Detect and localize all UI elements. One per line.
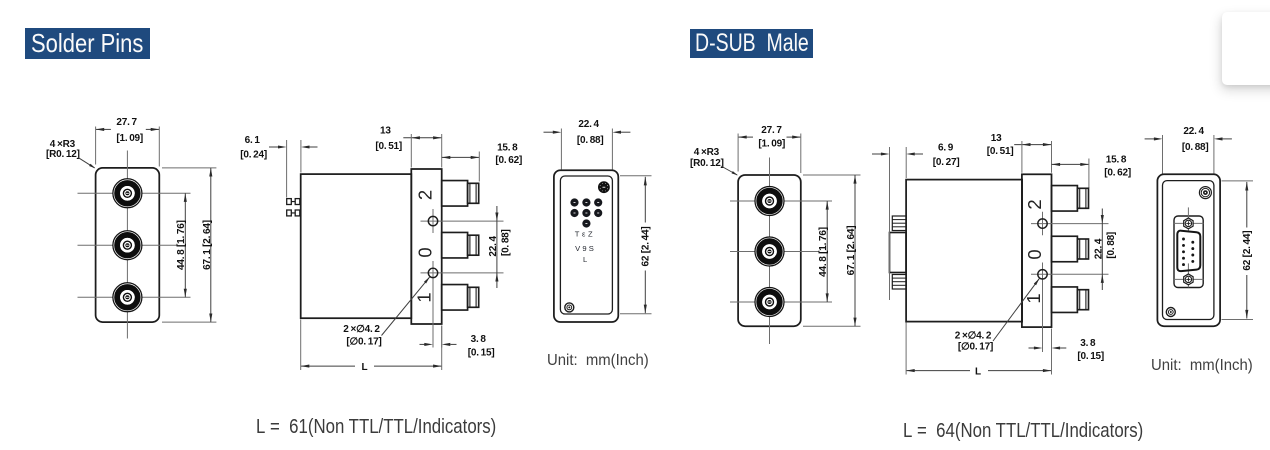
- D-SUB pins: [1182, 238, 1194, 266]
- centerline through BNC J1: [78, 192, 191, 194]
- extension line connector tip: [478, 152, 480, 182]
- svg-text:44. 8 [1. 76]: 44. 8 [1. 76]: [818, 227, 829, 277]
- front view vertical centerline: [126, 151, 128, 339]
- dimension 67.1 line right: [854, 175, 856, 326]
- panel dim 22.4 arrows right: [1145, 138, 1155, 140]
- front view body (D-SUB): [738, 175, 801, 326]
- dimension 44.8 line: [184, 193, 186, 297]
- svg-text:1: 1: [1023, 293, 1044, 303]
- mounting hole 4: [1038, 270, 1047, 279]
- panel extension line left: [560, 129, 562, 170]
- BNC connector J1 front: [113, 179, 142, 208]
- svg-text:2 ×∅4. 2: 2 ×∅4. 2: [955, 330, 992, 341]
- dimension 27.7 line left: [96, 128, 111, 130]
- svg-text:[0. 27]: [0. 27]: [933, 157, 960, 168]
- BNC connector J6 side: [1052, 287, 1089, 313]
- svg-text:L: L: [583, 255, 587, 264]
- extension line right: [158, 127, 160, 167]
- svg-text:22. 4: 22. 4: [1183, 126, 1204, 137]
- front view vertical centerline right: [769, 158, 771, 345]
- panel extension line right: [611, 129, 613, 170]
- dimension 3.8 arrows right: [1029, 347, 1035, 349]
- panel screw top right (D-SUB): [1199, 187, 1211, 199]
- extension lines 27.7 right: [737, 134, 739, 172]
- mounting hole 3 centerlines: [1031, 223, 1109, 225]
- BNC connector J5 side: [1052, 236, 1089, 262]
- caption L=64: [903, 419, 1196, 443]
- solder pin 1: [287, 199, 300, 205]
- D-SUB D-shape: [1177, 231, 1200, 271]
- svg-text:[0. 88]: [0. 88]: [1106, 232, 1117, 259]
- D-SUB jackscrew upper side: [892, 216, 906, 231]
- centerline through BNC J3: [78, 296, 191, 298]
- svg-text:2 ×∅4. 2: 2 ×∅4. 2: [343, 324, 380, 335]
- extension line bottom right: [162, 321, 216, 323]
- svg-text:22. 4: 22. 4: [488, 236, 499, 257]
- svg-text:[R0. 12]: [R0. 12]: [690, 158, 724, 169]
- svg-text:[0. 15]: [0. 15]: [1077, 351, 1104, 362]
- leader line 4xR3: [78, 157, 95, 168]
- centerline through BNC J4: [730, 200, 832, 202]
- BNC connector J6 front: [755, 288, 784, 317]
- extension line plate bottom right: [441, 326, 443, 371]
- panel extension line top right grp: [1222, 180, 1254, 182]
- dimension 3.8 arrows: [420, 343, 425, 345]
- svg-text:[0. 15]: [0. 15]: [468, 347, 495, 358]
- dimension 22.4 side line: [496, 206, 498, 288]
- dimension L line left: [301, 365, 355, 367]
- svg-text:22. 4: 22. 4: [1093, 238, 1104, 259]
- dimension L line right: [374, 365, 442, 367]
- centerline through BNC J6: [730, 301, 832, 303]
- svg-text:67. 1 [2. 64]: 67. 1 [2. 64]: [846, 226, 857, 276]
- svg-text:2: 2: [415, 190, 436, 200]
- svg-text:22. 4: 22. 4: [578, 119, 599, 130]
- svg-text:62 [2. 44]: 62 [2. 44]: [1242, 231, 1253, 271]
- unit note left: [547, 352, 656, 370]
- svg-text:3. 8: 3. 8: [1080, 338, 1096, 349]
- panel outer outline: [554, 170, 618, 322]
- D-SUB jackscrew bottom front: [1174, 263, 1204, 287]
- D-SUB shell side: [890, 233, 907, 273]
- panel extension lines right: [1162, 135, 1164, 174]
- dimension 6.9 arrows: [872, 153, 882, 155]
- panel face outline: [560, 176, 612, 314]
- D-SUB jackscrew lower side: [892, 275, 906, 290]
- dimension L line right grp: [906, 370, 970, 372]
- svg-text:67. 1 [2. 64]: 67. 1 [2. 64]: [202, 220, 213, 270]
- mounting hole 2: [428, 268, 437, 277]
- solder pin 2: [287, 210, 300, 216]
- extension line pin tip: [286, 140, 288, 198]
- panel dim 62 line right: [1246, 182, 1248, 228]
- indicator pin grid: [570, 198, 602, 227]
- panel dim 62 line: [644, 177, 646, 223]
- svg-text:15. 8: 15. 8: [1106, 155, 1127, 166]
- svg-text:6. 1: 6. 1: [245, 135, 261, 146]
- D-SUB flange: [1174, 216, 1203, 288]
- panel face outline right: [1163, 181, 1214, 320]
- svg-text:[0. 88]: [0. 88]: [577, 135, 604, 146]
- dimension 27.7 line right grp: [738, 136, 753, 138]
- svg-text:2: 2: [1024, 199, 1045, 209]
- side view body (Solder Pins): [301, 174, 412, 318]
- svg-text:[0. 62]: [0. 62]: [1104, 167, 1131, 178]
- caption L=61: [256, 415, 549, 439]
- svg-text:27. 7: 27. 7: [116, 117, 137, 128]
- dimension 27.7 line right: [146, 128, 160, 130]
- extension line plate right lower: [441, 326, 443, 348]
- svg-text:62 [2. 44]: 62 [2. 44]: [641, 226, 652, 266]
- panel screw bottom left: [565, 303, 574, 312]
- svg-text:44. 8 [1. 76]: 44. 8 [1. 76]: [176, 220, 187, 270]
- svg-text:13: 13: [991, 133, 1002, 144]
- svg-text:TεZ: TεZ: [575, 229, 595, 238]
- mounting hole 2 centerlines: [421, 272, 504, 274]
- panel screw top right: [598, 181, 610, 193]
- BNC connector J4 front: [755, 187, 784, 216]
- svg-text:[R0. 12]: [R0. 12]: [46, 149, 80, 160]
- mounting hole 4 centerlines: [1031, 273, 1109, 275]
- BNC connector J1 side: [442, 181, 479, 207]
- centerline through BNC J2: [78, 244, 178, 246]
- svg-text:1: 1: [414, 292, 435, 302]
- extension line dsub face: [889, 147, 891, 300]
- BNC connector J3 side: [442, 285, 479, 311]
- extension line plate right lower right grp: [1051, 329, 1053, 353]
- side view mounting plate right: [1022, 174, 1052, 327]
- extension line plate right: [441, 134, 443, 168]
- panel extension line bottom: [620, 313, 652, 315]
- svg-text:[0. 51]: [0. 51]: [375, 141, 402, 152]
- svg-text:27. 7: 27. 7: [761, 125, 782, 136]
- centerline through BNC J5: [730, 251, 819, 253]
- section header D-SUB Male: [690, 29, 813, 58]
- svg-text:[0. 24]: [0. 24]: [240, 149, 267, 160]
- panel extension line top: [620, 175, 652, 177]
- leader line to hole: [382, 277, 430, 336]
- extension line body left: [300, 140, 302, 173]
- panel outer outline right: [1157, 174, 1220, 326]
- svg-text:[0. 51]: [0. 51]: [987, 146, 1014, 157]
- extension lines 13 right: [1021, 141, 1023, 173]
- front view body (Solder Pins): [96, 168, 160, 322]
- unit note right: [1151, 357, 1260, 375]
- BNC connector J3 front: [113, 283, 142, 312]
- mounting hole 3: [1038, 219, 1047, 228]
- side view body (D-SUB): [906, 180, 1022, 322]
- svg-text:[0. 88]: [0. 88]: [500, 229, 511, 256]
- svg-text:V9S: V9S: [575, 244, 596, 253]
- dimension 15.8 line: [442, 156, 480, 158]
- svg-text:L: L: [975, 366, 981, 377]
- mounting hole 1: [428, 216, 437, 225]
- svg-text:[0. 88]: [0. 88]: [1182, 142, 1209, 153]
- extension line body bottom left: [300, 320, 302, 371]
- svg-text:6. 9: 6. 9: [938, 142, 954, 153]
- extension line body left right grp: [905, 147, 907, 178]
- dimension 6.1 arrows: [269, 146, 279, 148]
- D-SUB jackscrew top front: [1174, 207, 1204, 231]
- panel extension line bottom right grp: [1222, 319, 1254, 321]
- mounting hole 1 centerlines: [421, 220, 504, 222]
- BNC connector J2 side: [442, 232, 479, 258]
- extension lines L right: [905, 323, 907, 375]
- section header Solder Pins: [25, 28, 150, 59]
- svg-text:[∅0. 17]: [∅0. 17]: [346, 336, 381, 347]
- svg-text:15. 8: 15. 8: [497, 142, 518, 153]
- svg-text:[1. 09]: [1. 09]: [116, 133, 143, 144]
- extension lines 67.1 right: [803, 174, 861, 176]
- extension line plate left: [410, 134, 412, 168]
- extension line left: [95, 127, 97, 165]
- extension line connector tip right: [1088, 159, 1090, 189]
- svg-text:L: L: [361, 362, 367, 373]
- dimension 13 line: [403, 137, 441, 139]
- BNC connector J5 front: [755, 237, 784, 266]
- panel dim 22.4 arrows: [544, 131, 554, 133]
- extension line top right: [162, 167, 216, 169]
- floating card top right: [1222, 12, 1270, 85]
- dimension 22.4 side line right: [1101, 209, 1103, 291]
- dimension 67.1 line: [210, 168, 212, 322]
- panel screw bottom left (D-SUB): [1166, 308, 1175, 317]
- side view mounting plate: [411, 169, 441, 324]
- svg-text:[∅0. 17]: [∅0. 17]: [958, 341, 993, 352]
- svg-text:0: 0: [415, 247, 436, 257]
- leader line 4xR3 right: [721, 166, 737, 175]
- dimension 44.8 line right: [826, 201, 828, 302]
- svg-text:0: 0: [1024, 249, 1045, 259]
- svg-text:[0. 62]: [0. 62]: [495, 155, 522, 166]
- BNC connector J4 side: [1052, 186, 1089, 212]
- svg-text:4 ×R3: 4 ×R3: [694, 147, 720, 158]
- BNC connector J2 front: [113, 231, 142, 260]
- svg-text:13: 13: [380, 126, 391, 137]
- svg-text:[1. 09]: [1. 09]: [758, 138, 785, 149]
- svg-text:3. 8: 3. 8: [471, 334, 487, 345]
- leader line to hole right: [993, 278, 1039, 341]
- dimension 15.8 line right: [1052, 163, 1089, 165]
- dimension 13 line right: [1014, 144, 1051, 146]
